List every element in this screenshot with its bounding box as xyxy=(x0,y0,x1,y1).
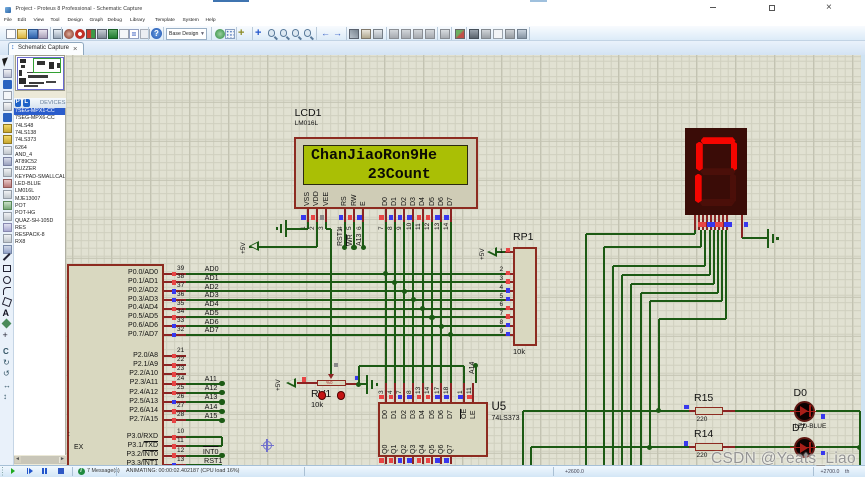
wire D1 vertical (LCD to U5) xyxy=(394,222,396,383)
devices list xyxy=(14,108,66,455)
7-seg state squares xyxy=(698,222,706,227)
7-seg pin stub 7 xyxy=(718,215,720,230)
node AD0 label xyxy=(205,265,219,273)
value 220 (R14) xyxy=(697,452,708,460)
junction AD4/D4 xyxy=(420,306,425,311)
7-segment display 7SEG-MPX1-CC body xyxy=(685,128,747,215)
state square (RV1 left) xyxy=(302,377,307,382)
U5 pin Q4 xyxy=(419,445,426,454)
LCD pin 4 RS xyxy=(341,196,348,206)
wire net AD5 xyxy=(186,316,505,318)
LED D7 xyxy=(794,437,815,458)
state square (VEE wire) xyxy=(334,363,339,368)
U5 pin 4 D1 xyxy=(394,383,396,402)
7-seg pin stub 2 xyxy=(698,215,700,230)
wire D5 vertical (LCD to U5) xyxy=(431,222,433,383)
junction segment/R15 xyxy=(656,408,661,413)
U5 pin Q0 xyxy=(382,445,389,454)
object selector sidebar xyxy=(14,55,67,465)
node A14 terminal xyxy=(473,363,478,368)
wire 7-seg segment 8 routing xyxy=(725,230,727,319)
node A14 label xyxy=(469,362,476,374)
7-seg pin stub 4 xyxy=(706,215,708,230)
pin 25 P2.4/A12 xyxy=(112,389,158,397)
wire from MCU P1 (bottom) to R15 xyxy=(522,411,524,465)
LCD pin 5 RW xyxy=(351,194,358,206)
pin 35 P0.4/AD4 xyxy=(112,304,158,312)
segment b (lit) xyxy=(731,142,738,172)
node A11 label xyxy=(205,375,217,383)
7-seg pin stub 8 xyxy=(722,215,724,230)
LCD text line 1 xyxy=(311,148,437,163)
node A12 label xyxy=(205,384,218,392)
segment dp xyxy=(729,198,734,203)
junction AD2/D2 xyxy=(402,289,407,294)
wire 7-seg segment 3 routing xyxy=(704,230,706,266)
wire 7-seg segment 1 routing xyxy=(694,230,696,234)
microcontroller U2 AT89C52 (clipped) xyxy=(67,264,164,474)
pin 24 P2.3/A11 xyxy=(112,379,158,387)
LCD pin 10 D3 xyxy=(410,197,417,206)
wire D6 vertical (LCD to U5) xyxy=(440,222,442,383)
LCD pin 9 D2 xyxy=(401,197,408,206)
schematic canvas xyxy=(66,55,861,465)
segment c xyxy=(730,174,737,204)
pin 10 P3.0 xyxy=(112,433,158,441)
menu bar xyxy=(0,16,865,26)
segment g xyxy=(701,168,736,175)
U5 pin Q1 xyxy=(391,445,398,454)
U5 pin 7 D2 xyxy=(403,383,405,402)
RP1 pin 9 xyxy=(505,334,513,336)
node WR terminal (RW) xyxy=(351,245,356,250)
schematic overview preview xyxy=(15,55,65,91)
LCD pin 2 VDD xyxy=(313,191,320,206)
junction AD7/D7 xyxy=(448,332,453,337)
origin marker xyxy=(263,441,272,450)
node AD7 label xyxy=(205,326,219,334)
wire D7 vertical (LCD to U5) xyxy=(450,222,452,383)
RV1 left terminal to +5V xyxy=(297,382,317,384)
junction AD5/D5 xyxy=(429,315,434,320)
label U5 xyxy=(492,401,507,414)
pin 38 P0.1/AD1 xyxy=(112,278,158,286)
U5 pin Q2 xyxy=(401,445,408,454)
wire junction up to U5 OE xyxy=(358,366,360,385)
label R14 xyxy=(694,429,713,441)
U5 pin 8 D3 xyxy=(412,383,414,402)
U5 pin 11 LE xyxy=(472,383,474,402)
segment e (lit) xyxy=(695,174,702,204)
7-seg pin stub 9 xyxy=(726,215,728,230)
wire net A12 xyxy=(186,392,222,394)
LCD pin 13 D6 xyxy=(438,197,445,206)
wire 7-seg segment 5 routing xyxy=(713,230,715,284)
RP1 pin 1 +5V xyxy=(505,251,513,253)
wire net INT0 xyxy=(186,455,222,457)
state square (RV1 right) xyxy=(355,376,360,381)
wire net AD4 xyxy=(186,308,505,310)
preview viewport box xyxy=(33,58,61,74)
wire D4 vertical (LCD to U5) xyxy=(422,222,424,383)
wire 7-seg segment 2 routing xyxy=(700,230,702,247)
ground (LCD VSS) xyxy=(285,220,287,237)
wire VDD to +5V xyxy=(316,222,318,247)
value 10k (RV1) xyxy=(311,401,323,410)
junction RV1/OE/ground xyxy=(356,382,361,387)
main toolbar xyxy=(0,26,865,42)
wire net AD0 xyxy=(186,273,505,275)
junction segment/R14 xyxy=(647,445,652,450)
LCD LCD1 LM016L body xyxy=(294,137,478,209)
wire D2 vertical (LCD to U5) xyxy=(403,222,405,383)
U5 pin 17 D6 xyxy=(440,383,442,402)
U5 pin Q3 xyxy=(410,445,417,454)
U5 pin 13 D4 xyxy=(422,383,424,402)
state square (R14) xyxy=(684,441,689,446)
ground (7-seg common) xyxy=(767,229,769,248)
RP1 pin 6 xyxy=(505,308,513,310)
7-seg pin stub 5 xyxy=(710,215,712,230)
7-seg pin stub 3 xyxy=(702,215,704,230)
junction AD3/D3 xyxy=(411,297,416,302)
RP1 pin 2 xyxy=(505,273,513,275)
node AD1 label xyxy=(205,274,219,282)
P/L device buttons xyxy=(14,98,67,108)
7-seg pin stub 1 xyxy=(694,215,696,230)
pin 39 P0.0/AD0 xyxy=(112,269,158,277)
7-seg pin stub 6 xyxy=(714,215,716,230)
tab bar xyxy=(0,41,865,55)
node A13 terminal xyxy=(219,399,224,404)
pin 26 P2.5/A13 xyxy=(112,398,158,406)
node WR label xyxy=(347,234,354,246)
wire RW stub xyxy=(353,222,355,247)
node INT0 label xyxy=(203,448,219,456)
LCD text line 2 xyxy=(368,167,431,182)
pin 37 P0.2/AD2 xyxy=(112,287,158,295)
wire net A14 xyxy=(186,410,222,412)
U5 pin 3 D0 xyxy=(385,383,387,402)
segment a (lit) xyxy=(701,137,736,144)
node AD4 label xyxy=(205,300,219,308)
junction right rail xyxy=(857,445,862,450)
pin 21 P2.0/A8 xyxy=(112,352,158,360)
LCD pin 7 D0 xyxy=(382,197,389,206)
pin 36 P0.3/AD3 xyxy=(112,296,158,304)
power +5V (RP1) xyxy=(487,247,497,257)
wire D0 to right rail xyxy=(816,410,860,412)
U5 pin Q7 xyxy=(447,445,454,454)
pin 12 P3.2 xyxy=(112,451,158,459)
wire junction to ground xyxy=(359,383,368,385)
wire 7-seg segment 7 routing xyxy=(721,230,723,301)
node A13 terminal (E) xyxy=(361,245,366,250)
wire E stub xyxy=(362,222,364,247)
node A13 label (E) xyxy=(356,234,363,246)
RP1 pin 8 xyxy=(505,325,513,327)
wire net AD1 xyxy=(186,281,505,283)
wire 7-seg segment 4 routing xyxy=(709,230,711,275)
devices list scrollbar xyxy=(14,456,66,464)
RP1 pin 4 xyxy=(505,290,513,292)
watermark xyxy=(711,450,856,468)
node A15 terminal xyxy=(219,418,224,423)
node RST1 label (RS) xyxy=(337,228,344,246)
value 74LS373 xyxy=(492,415,520,423)
latch U5 74LS373 body xyxy=(378,402,488,457)
RP1 pin 7 xyxy=(505,316,513,318)
RV1 right terminal xyxy=(346,383,359,385)
pin 13 P3.3 xyxy=(112,460,158,468)
U5 pin 14 D5 xyxy=(431,383,433,402)
node A12 terminal xyxy=(219,390,224,395)
wire net AD6 xyxy=(186,325,505,327)
segment d xyxy=(700,199,735,206)
label RP1 xyxy=(513,232,533,244)
wire net RST1 xyxy=(186,464,222,466)
node AD5 label xyxy=(205,309,219,317)
wire D0 vertical (LCD to U5) xyxy=(385,222,387,383)
wire RXD-TXD loop xyxy=(186,436,222,438)
U5 pin Q5 xyxy=(429,445,436,454)
LCD pin 14 D7 xyxy=(447,197,454,206)
node A15 label xyxy=(205,412,218,420)
wire net A14 to U5 LE xyxy=(475,366,477,384)
state square (D0) xyxy=(821,414,826,419)
resistor pack RP1 body xyxy=(513,247,537,346)
title bar xyxy=(0,0,865,16)
7-seg common pin xyxy=(741,215,743,238)
wire net A11 xyxy=(186,383,222,385)
RV1 labels xyxy=(311,389,331,401)
wire R14 to D7 xyxy=(735,446,794,448)
value 10k (RP1) xyxy=(513,348,525,357)
resistor R14 xyxy=(689,446,695,448)
state square (R15) xyxy=(684,405,689,410)
pin 11 P3.1 xyxy=(112,442,158,450)
label R15 xyxy=(694,393,713,405)
state square (D7) xyxy=(821,451,826,456)
junction AD6/D6 xyxy=(439,324,444,329)
wire from MCU P1 (bottom) to R14 xyxy=(530,447,532,465)
node RST1 label xyxy=(204,457,222,465)
power +5V (RV1) xyxy=(286,378,296,388)
junction AD0/D0 xyxy=(383,271,388,276)
node RST1 terminal (RS) xyxy=(342,245,347,250)
wire net AD7 xyxy=(186,334,505,336)
node INT0 terminal xyxy=(219,453,224,458)
potentiometer RV1 body xyxy=(317,380,346,387)
segment f (lit) xyxy=(696,142,703,172)
RV1 wiper arrow xyxy=(328,374,334,379)
node A14 terminal xyxy=(219,409,224,414)
pin 33 P0.6/AD6 xyxy=(112,322,158,330)
wire net A13 xyxy=(186,401,222,403)
pin 27 P2.6/A14 xyxy=(112,407,158,415)
LCD pin 6 E xyxy=(360,201,367,206)
wire 7-seg segment 6 routing xyxy=(717,230,719,293)
node AD3 label xyxy=(205,291,219,299)
wire common to ground xyxy=(742,237,767,239)
pin 34 P0.5/AD5 xyxy=(112,313,158,321)
LCD screen xyxy=(303,145,468,185)
wire D7 to right rail xyxy=(816,446,860,448)
wire net AD3 xyxy=(186,299,505,301)
wire net A15 xyxy=(186,419,222,421)
node A13 label xyxy=(205,393,218,401)
node AD2 label xyxy=(205,283,219,291)
node AD6 label xyxy=(205,318,219,326)
design combo xyxy=(166,28,207,40)
ground (RV1) xyxy=(366,375,368,394)
LCD pin 8 D1 xyxy=(391,197,398,206)
node A11 terminal xyxy=(219,381,224,386)
label D7 xyxy=(792,423,805,435)
right window edge xyxy=(861,55,865,465)
LCD pin 12 D5 xyxy=(429,197,436,206)
RP1 pin 5 xyxy=(505,299,513,301)
U5 pin 1 OE xyxy=(463,383,465,402)
LCD pin 3 VEE xyxy=(323,192,330,206)
LCD pin 1 VSS xyxy=(304,192,311,206)
value LED-BLUE (D0) xyxy=(795,423,827,431)
status bar xyxy=(0,465,865,477)
node A14 label xyxy=(205,403,218,411)
wire R15 to D0 xyxy=(735,410,794,412)
RP1 pin 3 xyxy=(505,281,513,283)
wire VSS to ground xyxy=(307,222,309,229)
resistor R15 xyxy=(689,410,695,412)
value 220 (R15) xyxy=(697,416,708,424)
power +5V (LCD VDD) xyxy=(249,241,259,251)
U5 pin 18 D7 xyxy=(450,383,452,402)
wire D3 vertical (LCD to U5) xyxy=(412,222,414,383)
label +5V (RP1) xyxy=(480,248,487,260)
label +5V (RV1) xyxy=(276,379,283,391)
pin 23 P2.2/A10 xyxy=(112,370,158,378)
label +5V xyxy=(241,242,248,254)
U5 pin Q6 xyxy=(438,445,445,454)
label D0 xyxy=(794,388,807,400)
LED D0 xyxy=(794,401,815,422)
LCD LCD1 label xyxy=(295,108,322,120)
pin 32 P0.7/AD7 xyxy=(112,331,158,339)
LCD pin 11 D4 xyxy=(419,197,426,206)
wire net AD2 xyxy=(186,290,505,292)
pin 28 P2.7/A15 xyxy=(112,416,158,424)
left mode toolbar xyxy=(0,55,14,465)
pin 22 P2.1/A9 xyxy=(112,361,158,369)
wire VEE to RV1 wiper xyxy=(325,222,327,229)
wire RS stub xyxy=(344,222,346,247)
junction AD1/D1 xyxy=(392,280,397,285)
